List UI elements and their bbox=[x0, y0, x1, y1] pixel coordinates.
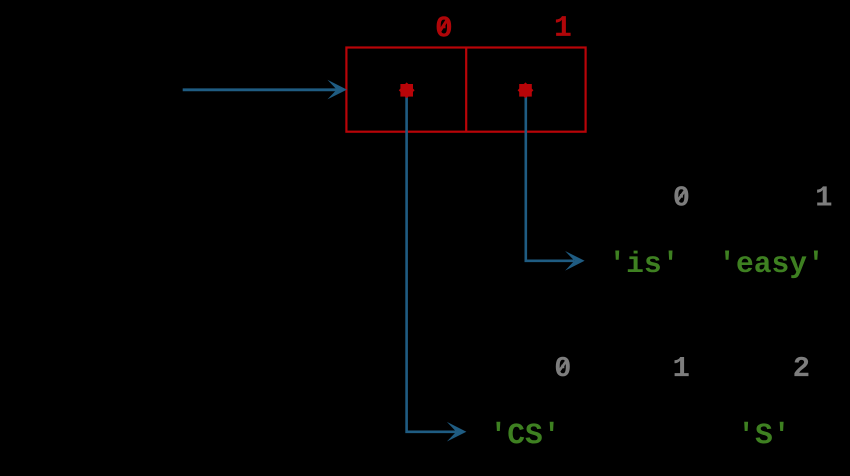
slash of gray 0 row 2 bbox=[558, 359, 567, 372]
pointer star cell 1 bbox=[518, 82, 534, 98]
arrow into list box bbox=[183, 80, 347, 100]
pointer star cell 0 bbox=[399, 82, 415, 98]
string 'is' bbox=[615, 251, 672, 273]
index label 1 (top) bbox=[556, 16, 571, 36]
sub-list indices row 2 bbox=[556, 357, 809, 377]
string 'easy' bbox=[725, 251, 818, 279]
sub-list indices row 1 bbox=[674, 186, 831, 206]
slash of gray 0 row 1 bbox=[677, 189, 686, 202]
string 'CS' bbox=[496, 422, 553, 444]
string 'S' bbox=[744, 422, 783, 444]
index label 0 (top) bbox=[437, 16, 452, 36]
cell divider bbox=[465, 48, 467, 132]
arrow cell0 -> 'CS' list bbox=[407, 90, 467, 441]
list box (two cells) bbox=[346, 48, 585, 132]
arrow cell1 -> 'is' list bbox=[526, 90, 585, 270]
